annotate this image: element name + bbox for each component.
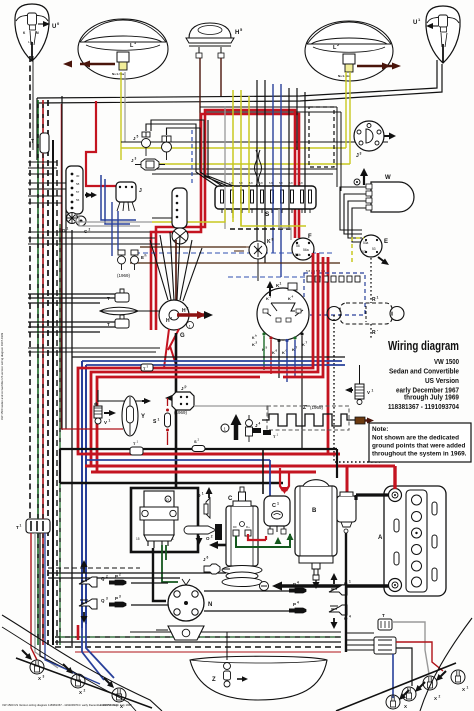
wire: lower horizontals — [48, 573, 226, 578]
hatch line right — [336, 663, 456, 711]
svg-text:J: J — [139, 188, 142, 194]
svg-text:2: 2 — [439, 695, 441, 699]
svg-text:O: O — [197, 493, 201, 498]
svg-text:1: 1 — [277, 502, 279, 506]
ignition starter switch G — [159, 300, 213, 339]
svg-text:4: 4 — [297, 601, 299, 605]
ground arrow left of generator — [209, 524, 226, 549]
wire: thick red bus loops — [78, 253, 340, 454]
horn H5 — [186, 23, 243, 58]
turn signal U1 (front right) — [413, 6, 460, 63]
svg-text:X: X — [404, 704, 407, 709]
svg-text:V: V — [367, 390, 370, 395]
connector on Z lead — [355, 417, 374, 424]
svg-text:D+: D+ — [246, 525, 250, 529]
svg-text:5.8: 5.8 — [289, 181, 293, 185]
svg-text:56: 56 — [76, 198, 80, 202]
svg-text:ground points that were added: ground points that were added — [372, 443, 465, 450]
svg-text:T: T — [31, 139, 34, 145]
wire: fusebox bottom yellow L — [152, 209, 306, 226]
svg-text:X: X — [434, 696, 437, 701]
svg-text:Q: Q — [101, 598, 105, 603]
wire: fan into ignition switch — [150, 232, 202, 301]
wire arrow (left headlight feed) — [63, 61, 115, 68]
svg-text:VW 1500: VW 1500 — [434, 359, 459, 366]
rear left body outline — [2, 615, 162, 711]
wire: brown runs below fusebox — [140, 246, 246, 248]
wire: drops from K switch — [263, 336, 265, 370]
tail light X3 — [22, 650, 45, 681]
svg-text:early December 1967: early December 1967 — [396, 388, 459, 395]
wire: battery to solenoid black — [356, 495, 389, 500]
svg-text:8: 8 — [272, 238, 274, 242]
svg-text:56: 56 — [296, 244, 300, 248]
dial switch C2 — [172, 188, 188, 244]
stop switch S1 — [153, 398, 171, 445]
svg-text:5.8: 5.8 — [219, 181, 223, 185]
fuse J0 — [133, 132, 151, 156]
wire: red top loop from G to F — [151, 114, 299, 330]
wire: coil HT lead — [153, 548, 166, 601]
ignition coil box (black loop) — [131, 488, 198, 552]
license plate light Z — [190, 632, 327, 700]
svg-text:Q: Q — [101, 576, 105, 581]
ignition coil O — [136, 491, 178, 548]
vacuum unit below distributor — [156, 626, 204, 640]
connector T1 under comb — [252, 428, 279, 439]
wire: thick red risers from F — [327, 257, 330, 455]
svg-text:H: H — [235, 30, 239, 36]
svg-text:56a: 56a — [303, 248, 309, 252]
svg-text:1: 1 — [109, 419, 111, 423]
svg-text:Not shown are the dedicated: Not shown are the dedicated — [372, 435, 459, 442]
wire: fan into fuse box — [196, 150, 236, 187]
svg-text:X: X — [38, 676, 41, 681]
cable connector P4 + plug Q4 (right) — [289, 573, 351, 595]
wire: red X below G — [164, 329, 179, 368]
svg-text:P: P — [115, 596, 118, 601]
svg-text:F: F — [308, 234, 312, 240]
wire: dashed black below fusebox — [230, 228, 292, 230]
svg-text:53: 53 — [372, 247, 376, 251]
svg-text:5.8: 5.8 — [299, 181, 303, 185]
wire: twisted pair above fusebox — [255, 150, 258, 198]
svg-text:1: 1 — [158, 418, 160, 422]
svg-text:U: U — [413, 20, 417, 26]
title block — [388, 338, 459, 411]
wire: drops continuing through fuse box — [225, 186, 305, 277]
wire: fusebox feed drops — [224, 106, 226, 188]
wire: horn feed maroon — [200, 58, 221, 168]
svg-text:15: 15 — [136, 537, 140, 541]
svg-text:DF: DF — [233, 525, 237, 529]
svg-text:5.8: 5.8 — [249, 181, 253, 185]
svg-text:O: O — [166, 497, 169, 502]
svg-text:5: 5 — [137, 135, 139, 139]
svg-text:E: E — [384, 239, 388, 245]
wire: T1 connector block — [16, 519, 50, 533]
headlight L1 (left) — [78, 19, 168, 79]
svg-text:p: p — [185, 385, 187, 389]
svg-text:A: A — [378, 535, 383, 541]
svg-text:(1969): (1969) — [310, 405, 324, 410]
svg-text:1: 1 — [202, 492, 204, 496]
fuse J4 — [246, 415, 261, 442]
svg-text:5.8: 5.8 — [269, 181, 273, 185]
turn signal U0 (front left) — [15, 4, 60, 61]
wire: HT leads left — [131, 583, 168, 605]
wire: grey drop to F — [279, 209, 291, 240]
suppressor R1 — [327, 296, 404, 337]
battery plate A — [378, 486, 446, 596]
labels K2..K7 under switch — [252, 334, 308, 356]
svg-text:30: 30 — [76, 174, 80, 178]
svg-text:1: 1 — [20, 524, 22, 528]
svg-text:S: S — [265, 211, 270, 218]
wire arrow (right headlight feed) — [357, 63, 401, 70]
svg-text:3: 3 — [106, 597, 108, 601]
svg-text:5.8: 5.8 — [259, 181, 263, 185]
spark plug Q3 — [79, 597, 108, 624]
wire: left turn signal stem (dashed) — [29, 56, 31, 521]
headlamp switch Q — [66, 166, 97, 214]
svg-text:P: P — [293, 582, 296, 587]
svg-text:G: G — [180, 333, 185, 339]
svg-text:B: B — [312, 508, 317, 514]
tail light X — [104, 678, 126, 709]
svg-text:1: 1 — [467, 686, 469, 690]
svg-text:T: T — [107, 322, 110, 327]
brake light switch V1 — [94, 390, 151, 425]
wire/arrow K1 above switch — [267, 281, 298, 296]
svg-text:6: 6 — [207, 556, 209, 560]
switch V0 (right) — [345, 365, 374, 405]
svg-text:3: 3 — [119, 595, 121, 599]
svg-text:R: R — [372, 297, 376, 303]
svg-text:4: 4 — [349, 615, 351, 619]
svg-text:118381367 - 1191093704: 118381367 - 1191093704 — [388, 404, 459, 411]
ground arrow at W — [354, 168, 368, 185]
svg-text:-: - — [377, 328, 378, 332]
svg-text:VW 1500 sedan and convertible: VW 1500 sedan and convertible US version… — [0, 332, 4, 420]
wire: black bus mid — [72, 356, 345, 358]
svg-text:K: K — [267, 239, 271, 245]
wire: headlight L1 drops (yellow/white) — [120, 72, 122, 160]
dimmer relay F — [292, 234, 314, 260]
emergency flasher Eh (1969) — [117, 250, 147, 278]
svg-text:2: 2 — [106, 575, 108, 579]
tail light X right — [402, 682, 425, 709]
svg-text:5.8: 5.8 — [229, 181, 233, 185]
solenoid — [337, 492, 356, 533]
fuse box S — [215, 181, 316, 218]
generator C — [222, 487, 262, 587]
wire: left stub horizontals — [28, 162, 66, 203]
dashed harness box (blue) — [304, 269, 365, 315]
svg-text:H: H — [182, 308, 186, 314]
svg-text:through July 1969: through July 1969 — [404, 395, 459, 402]
flasher relay J3 — [354, 121, 396, 159]
svg-text:(1969): (1969) — [117, 273, 131, 278]
svg-text:2: 2 — [187, 307, 189, 311]
wire: mid horizontals under headlights — [121, 141, 388, 143]
svg-text:1: 1 — [280, 282, 282, 286]
wire: dotted antenna lead — [334, 315, 380, 462]
svg-text:3: 3 — [135, 157, 137, 161]
connector T (upper left) — [31, 133, 49, 153]
rear right body outline — [420, 618, 472, 711]
svg-text:N: N — [208, 602, 212, 608]
wire: top bus black pair — [37, 60, 442, 103]
wire: dash horizontals left — [28, 294, 115, 303]
switch S2 on black bus — [192, 446, 205, 452]
blue wire loop (wiper) — [101, 175, 136, 224]
cable connector P2 — [109, 573, 126, 586]
connector T3 on red bus — [141, 364, 153, 371]
svg-text:V: V — [104, 420, 107, 425]
svg-text:throughout the system in 1969.: throughout the system in 1969. — [372, 451, 467, 458]
wire: nest W to E — [340, 187, 366, 242]
cable connector P3 — [109, 595, 126, 608]
distributor N — [168, 579, 212, 621]
condenser O1 — [197, 487, 213, 518]
wire: dashed blue horizontals — [135, 252, 334, 254]
svg-text:1: 1 — [349, 580, 351, 584]
connector T1 on red bus — [130, 447, 143, 455]
svg-text:53a: 53a — [363, 241, 369, 245]
wire: trunk ground drop — [345, 533, 347, 652]
regulator C1 — [264, 496, 290, 534]
svg-text:57: 57 — [76, 190, 80, 194]
turn signal switch K — [257, 288, 309, 342]
svg-text:Sedan and Convertible: Sedan and Convertible — [389, 369, 459, 376]
wire: thick red engine buses — [85, 453, 340, 456]
wiper motor W — [366, 175, 414, 212]
svg-text:3: 3 — [360, 152, 362, 156]
svg-text:Wiring diagram: Wiring diagram — [388, 338, 459, 353]
sender arrow T2 — [221, 414, 242, 440]
svg-text:58: 58 — [76, 182, 80, 186]
svg-text:O: O — [206, 536, 210, 541]
connector block above fusebox — [251, 198, 264, 209]
svg-text:Y: Y — [141, 414, 145, 420]
svg-text:1: 1 — [372, 389, 374, 393]
oil switch J6 — [203, 556, 230, 575]
svg-text:4: 4 — [297, 581, 299, 585]
svg-text:1: 1 — [67, 227, 69, 231]
wiper relay P (1969) — [165, 385, 194, 416]
wire: grey from P to comb — [194, 406, 268, 418]
wire: T connectors rear right — [374, 613, 396, 654]
wire: red to Y bottom — [62, 428, 124, 430]
svg-text:X: X — [79, 690, 82, 695]
svg-text:T: T — [382, 613, 385, 618]
wire: dashed yellow at E — [352, 238, 364, 262]
svg-text:2: 2 — [119, 573, 121, 577]
wire: tails to rear right lights — [392, 622, 429, 674]
tail light small right — [386, 690, 409, 709]
svg-text:R: R — [372, 330, 376, 336]
wire: left bundle verticals — [37, 100, 39, 645]
svg-text:1: 1 — [171, 317, 173, 321]
svg-text:5.8: 5.8 — [239, 181, 243, 185]
svg-text:C: C — [272, 503, 276, 509]
wire: T1 tails to rear left lights — [31, 533, 37, 660]
svg-text:Z': Z' — [303, 405, 307, 411]
svg-text:2: 2 — [211, 535, 213, 539]
headlight L2 (right) — [305, 21, 393, 81]
svg-text:1: 1 — [377, 296, 379, 300]
svg-text:Ns b Sta: Ns b Sta — [338, 74, 350, 78]
wire: corners above fuses — [146, 124, 200, 172]
tail light X2 — [63, 664, 86, 695]
dashed connector strip — [309, 107, 334, 167]
starter B — [295, 480, 337, 589]
tail light X2 right — [423, 671, 446, 701]
oil pressure tell-tale Y — [122, 396, 145, 436]
heated rear window Z' (1969) — [262, 405, 355, 430]
svg-text:U: U — [52, 24, 56, 30]
wire: battery + red — [393, 466, 396, 489]
wire: blue bus — [82, 361, 345, 365]
svg-text:X: X — [462, 687, 465, 692]
suppressor O2 — [184, 526, 216, 545]
warning lamp K8 — [234, 238, 274, 282]
svg-text:1191 093 704: 1191 093 704 — [100, 703, 117, 707]
wire: battery ground strap — [260, 582, 390, 591]
svg-text:US Version: US Version — [425, 378, 459, 385]
wire: gen to regulator (red/green) — [248, 534, 266, 540]
note box — [369, 423, 471, 462]
wire: black bus + drop — [60, 482, 283, 484]
svg-text:C: C — [228, 496, 233, 502]
wire: blue drop to left bulbs — [82, 624, 114, 680]
fuel gauge pointer — [100, 307, 160, 315]
svg-text:H: H — [166, 318, 170, 324]
fuse J4 (second bulb) — [162, 136, 172, 160]
svg-text:1: 1 — [172, 537, 174, 541]
wire: bottom harness bundle — [55, 641, 341, 643]
svg-text:(1969): (1969) — [174, 410, 188, 415]
svg-text:5.8: 5.8 — [279, 181, 283, 185]
svg-text:P: P — [293, 602, 296, 607]
wire: green coil to distributor — [162, 545, 178, 582]
wire: HT leads right — [204, 591, 289, 611]
svg-text:M: M — [36, 31, 39, 35]
fuse J3 (horizontal) — [131, 157, 165, 171]
wiper switch E — [360, 235, 389, 265]
svg-text:2: 2 — [89, 228, 91, 232]
svg-text:3: 3 — [43, 675, 45, 679]
svg-text:2: 2 — [84, 689, 86, 693]
connector T pair (dash) — [107, 289, 129, 328]
svg-text:4: 4 — [259, 422, 261, 426]
svg-text:Note:: Note: — [372, 426, 388, 433]
tail light X1 — [451, 670, 469, 696]
svg-text:h: h — [145, 254, 147, 258]
svg-text:Z: Z — [212, 677, 216, 683]
wire: red risers mid-left — [86, 101, 135, 186]
svg-text:1: 1 — [134, 41, 136, 45]
svg-text:P: P — [115, 574, 118, 579]
wire: blue risers mid-left — [81, 361, 83, 628]
lighter G1 — [62, 213, 91, 235]
svg-text:2: 2 — [337, 43, 339, 47]
svg-text:W: W — [385, 175, 391, 181]
spark plug Q2 — [79, 560, 108, 587]
wiper switch J — [116, 182, 142, 211]
wire: feeds down to C1/solenoid — [269, 460, 271, 496]
svg-text:Ns b Sta: Ns b Sta — [112, 72, 124, 76]
svg-text:h: h — [255, 334, 257, 338]
